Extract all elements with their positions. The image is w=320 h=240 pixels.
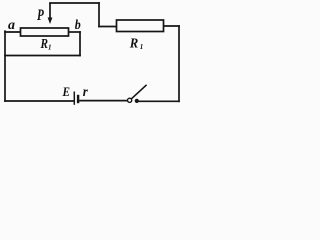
wire top horizontal from wiper P to right step [50,2,99,4]
wire step vertical down [98,3,100,27]
battery cell E,r : short thick plate (negative) [77,95,79,103]
switch fixed contact dot [135,99,139,103]
battery cell E,r : long thin plate (positive) [73,92,75,105]
svg-text:b: b [75,18,81,33]
resistor R2 body [117,20,164,32]
svg-text:E: E [62,84,71,99]
svg-text:R: R [129,37,138,52]
wire resistor R2 right terminal to right corner [164,25,180,27]
wire step to resistor R2 left terminal [99,26,117,28]
svg-text:1: 1 [140,43,144,51]
svg-text:R: R [40,36,48,51]
rheostat R1 body [21,28,69,36]
svg-text:1: 1 [48,44,52,52]
rheostat wiper P arrow [48,3,53,24]
wire bottom middle (battery to switch) [80,100,127,102]
wire left vertical (node a/b to battery) [4,31,6,101]
wire right vertical down to bottom [178,26,180,101]
switch pivot open circle [128,98,132,102]
wire b bottom horizontal back to left vertical [5,55,80,57]
wire a to rheostat left terminal [5,31,21,33]
wire bottom left (left corner to battery) [5,100,73,102]
svg-text:P: P [36,7,44,24]
svg-text:a: a [8,18,15,33]
svg-text:r: r [83,85,89,100]
wire rheostat right terminal to b corner [69,31,81,33]
wire bottom right (switch dot to right corner) [137,100,179,102]
wire b vertical down [79,32,81,56]
switch lever blade [131,85,146,99]
